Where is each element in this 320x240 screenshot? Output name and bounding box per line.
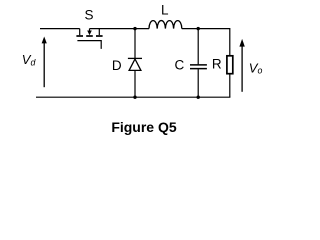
svg-text:D: D bbox=[112, 58, 122, 73]
node: output top junction bbox=[197, 27, 200, 30]
wire: diode anode to bottom rail bbox=[134, 70, 136, 97]
capacitor C bbox=[190, 65, 207, 69]
wire: node to diode cathode bbox=[134, 29, 136, 59]
svg-text:Vd: Vd bbox=[22, 52, 37, 67]
svg-text:R: R bbox=[212, 56, 222, 71]
node: switch/diode/inductor junction bbox=[133, 27, 136, 30]
resistor R bbox=[227, 56, 233, 74]
wire: inductor to output node and resistor corner bbox=[182, 29, 230, 56]
svg-text:C: C bbox=[175, 57, 185, 72]
node: diode anode / bottom rail junction bbox=[133, 96, 136, 99]
wire: capacitor bottom plate to bottom rail bbox=[197, 69, 199, 97]
wire: bottom rail bbox=[36, 96, 230, 98]
output voltage arrow Vo bbox=[239, 39, 244, 92]
svg-text:Vo: Vo bbox=[249, 60, 263, 75]
node: capacitor / bottom rail junction bbox=[197, 96, 200, 99]
wire: switch source to diode node bbox=[90, 28, 150, 30]
wire: output node to capacitor top plate bbox=[197, 29, 199, 65]
svg-text:L: L bbox=[161, 3, 169, 18]
diode D bbox=[128, 58, 142, 70]
wire: resistor bottom to bottom rail bbox=[229, 74, 231, 98]
wire: top rail left segment (input + to switch drain) bbox=[40, 28, 80, 30]
source voltage arrow Vd bbox=[42, 37, 47, 88]
transistor S (MOSFET switch) bbox=[76, 29, 102, 49]
svg-text:Figure Q5: Figure Q5 bbox=[111, 119, 177, 135]
inductor L bbox=[149, 21, 182, 29]
svg-text:S: S bbox=[84, 7, 93, 22]
